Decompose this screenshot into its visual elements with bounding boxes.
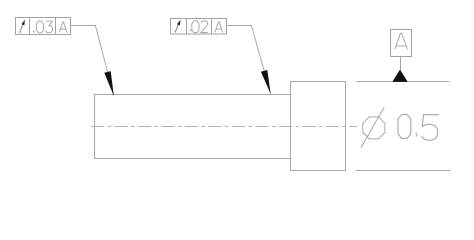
tolerance value .02 in FCF2 [190,21,208,33]
leader 2 [227,26,271,94]
arrowhead 1 [104,71,114,96]
datum feature symbol box A [391,30,412,57]
circular runout symbol in FCF2 [175,20,180,33]
tolerance value .03 in FCF1 [33,21,53,33]
datum reference letter A in FCF1 [59,22,67,33]
diameter symbol [361,107,385,147]
circular runout symbol in FCF1 [20,20,25,33]
extension line bottom [356,170,451,172]
extension line top [357,81,450,83]
datum reference letter A in FCF2 [215,22,223,33]
dimension text 0.5 [398,114,439,140]
datum triangle [392,70,407,82]
feature control frame FCF1 box [16,18,71,35]
arrowhead 2 [261,70,271,94]
datum letter A [395,33,408,49]
datum stem [400,57,402,71]
centerline [91,126,357,128]
feature control frame FCF2 box [171,19,227,35]
shaft large diameter outline [291,82,346,171]
leader 1 [71,26,114,96]
shaft small diameter outline [95,94,291,159]
